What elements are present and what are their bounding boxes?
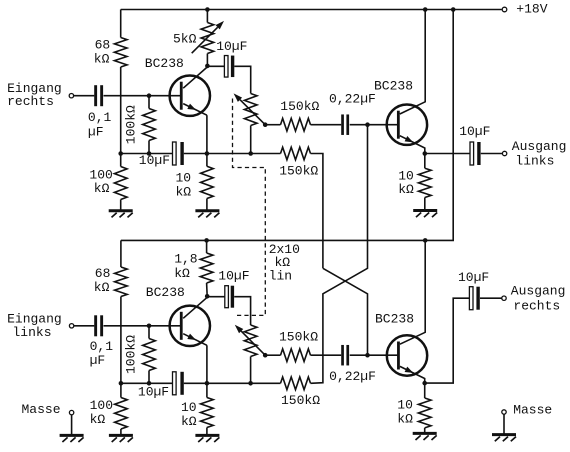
node pot bottom junction lower: [248, 381, 253, 386]
svg-text:BC238: BC238: [146, 285, 185, 300]
transistor Q2 BC238: [387, 105, 427, 145]
node base divider junction lower: [147, 324, 152, 329]
wire pot bottom to node row lower: [250, 357, 252, 384]
node 100k-rot bottom junction lower: [147, 381, 152, 386]
resistor 10k lower-left: [201, 398, 214, 428]
wire 0.22uF to base Q4: [350, 354, 398, 356]
wire collector to 10uF lower: [207, 296, 225, 298]
svg-text:10µF: 10µF: [459, 124, 490, 139]
ground Masse left: [60, 435, 84, 442]
label 1.8k: [174, 252, 197, 281]
svg-text:0,1: 0,1: [90, 339, 114, 354]
svg-text:150kΩ: 150kΩ: [280, 99, 319, 114]
svg-text:kΩ: kΩ: [94, 52, 110, 67]
svg-text:100: 100: [89, 167, 112, 182]
wire crossover left-to-right: [311, 125, 368, 384]
potentiometer upper wiper arrow: [234, 93, 266, 124]
capacitor 10uF output upper: [470, 142, 481, 165]
trimmer 5k arrow: [192, 21, 224, 53]
svg-text:10µF: 10µF: [139, 153, 170, 168]
label 5k: [173, 32, 197, 47]
wire crossover right-to-left: [323, 268, 368, 355]
svg-text:10µF: 10µF: [458, 270, 489, 285]
resistor 100k rotated lower: [143, 339, 156, 371]
svg-text:links: links: [515, 154, 554, 169]
wire emitter Q2 to 10k: [424, 154, 426, 169]
wire emitter Q3: [183, 334, 207, 384]
wire emitter Q4: [400, 366, 425, 383]
resistor 10k upper-right: [419, 168, 432, 197]
ground Masse right: [492, 435, 516, 442]
wire 1.8k to collector node: [206, 283, 209, 297]
capacitor 10uF output lower: [469, 287, 479, 310]
label 0.1uF lower: [90, 339, 114, 368]
resistor 68k lower: [115, 267, 128, 297]
svg-text:kΩ: kΩ: [181, 414, 197, 429]
output terminal Ausgang rechts: [502, 296, 506, 300]
resistor 100k lower-left: [115, 398, 128, 430]
capacitor 0.1uF upper: [94, 85, 103, 106]
node wiper lower junction: [263, 353, 268, 358]
transistor Q1 BC238: [170, 76, 210, 116]
svg-text:kΩ: kΩ: [176, 184, 192, 199]
wire wiper to 150k: [265, 124, 280, 126]
ground below 10k lower-right: [413, 433, 437, 440]
label 150k lower-first: [279, 329, 318, 344]
wire emitter Q2: [400, 136, 425, 154]
capacitor 10uF coupling upper: [224, 56, 234, 78]
label 150k upper-second: [279, 164, 318, 179]
capacitor 10uF coupling lower: [225, 286, 234, 308]
wire rail drop: [121, 10, 453, 241]
wire wiper to 150k lower: [265, 354, 280, 356]
node base Q2 junction: [365, 122, 370, 127]
wire emitter Q4 to 10k: [424, 383, 426, 398]
svg-text:150kΩ: 150kΩ: [279, 164, 318, 179]
label 68k upper: [94, 37, 110, 66]
wire 100k-rot to node row lower: [148, 371, 150, 384]
svg-text:Masse: Masse: [22, 402, 61, 417]
wire collector Q4: [400, 240, 425, 344]
label 100k lower-left: [90, 398, 113, 427]
resistor 150k upper-second: [281, 147, 311, 160]
ground below 10k lower-left: [195, 435, 219, 442]
resistor 10k upper-left: [201, 166, 214, 198]
ground below 100k upper: [109, 211, 133, 218]
wire emitter to 10k lower-left: [206, 383, 208, 397]
capacitor 0.1uF lower: [94, 315, 103, 336]
node lower-rail 1.8k junction: [204, 238, 209, 243]
svg-text:BC238: BC238: [145, 56, 184, 71]
wire 10k to ground lower-right: [424, 428, 426, 434]
label 10k upper-left: [176, 170, 192, 199]
svg-text:68: 68: [95, 266, 111, 281]
node base divider junction: [147, 93, 152, 98]
label Masse right: [513, 402, 552, 417]
potentiometer 10k lower body: [244, 325, 257, 357]
wire 100k to ground lower: [120, 429, 122, 435]
wire node row mid: [184, 153, 281, 155]
svg-text:links: links: [13, 325, 52, 340]
wire rail to 68k: [120, 10, 122, 38]
ground below 100k lower: [109, 435, 133, 442]
svg-text:kΩ: kΩ: [174, 266, 190, 281]
resistor 100k upper-left: [114, 167, 127, 200]
wire 150k2 to crossover: [311, 154, 323, 269]
label 10k lower-right: [397, 398, 413, 427]
wire 10k to ground upper-right: [424, 198, 426, 211]
wire Masse right to ground: [503, 414, 505, 434]
node emitter Q2 junction: [423, 151, 428, 156]
label Masse left: [22, 402, 61, 417]
label 150k upper-first: [280, 99, 319, 114]
label 10uF output upper: [459, 124, 490, 139]
node 68k-100k junction lower: [119, 381, 124, 386]
label 10k upper-right: [398, 169, 414, 198]
resistor 150k upper-first: [281, 118, 311, 131]
input terminal Eingang rechts: [69, 94, 73, 98]
svg-text:+18V: +18V: [516, 1, 547, 16]
label 100k upper-left: [89, 167, 112, 196]
label 150k lower-second: [281, 393, 320, 408]
node collector Q1 junction: [205, 64, 210, 69]
trimmer 5k body: [201, 23, 214, 54]
wire 150k to 0.22uF: [311, 124, 342, 126]
node rail-trimmer junction: [205, 7, 210, 12]
svg-text:kΩ: kΩ: [398, 182, 414, 197]
node collector Q3 junction: [205, 294, 210, 299]
svg-text:Ausgang: Ausgang: [511, 283, 566, 298]
wire input to cap: [74, 95, 95, 97]
label Eingang rechts: [7, 81, 62, 109]
wire collector Q3: [183, 297, 207, 318]
power terminal +18V: [502, 7, 507, 12]
svg-text:5kΩ: 5kΩ: [173, 32, 197, 47]
svg-text:0,22µF: 0,22µF: [329, 92, 376, 107]
wire 68k to node row lower: [120, 297, 122, 384]
wire cap to base Q3: [104, 325, 181, 327]
input terminal Eingang links: [69, 324, 73, 328]
output terminal Ausgang links: [502, 151, 506, 155]
svg-text:10: 10: [176, 170, 192, 185]
capacitor 0.22uF upper: [341, 114, 349, 135]
svg-text:100kΩ: 100kΩ: [124, 335, 139, 374]
wire rail to 68k lower: [120, 240, 122, 267]
wire Masse left to ground: [71, 415, 73, 436]
wire output cap to terminal lower: [480, 297, 502, 299]
svg-text:BC238: BC238: [375, 311, 414, 326]
svg-text:0,1: 0,1: [88, 110, 112, 125]
svg-text:10: 10: [397, 398, 413, 413]
svg-text:kΩ: kΩ: [90, 412, 106, 427]
wire 150k to 0.22uF lower: [311, 354, 342, 356]
label 0.1uF upper: [88, 110, 112, 140]
wire 10uF to pot top: [234, 66, 250, 93]
wire node row left lower: [121, 382, 173, 384]
node lower-rail collector junction: [423, 238, 428, 243]
node 68k-100k junction: [118, 151, 123, 156]
label Ausgang rechts: [511, 283, 566, 313]
svg-text:rechts: rechts: [7, 94, 54, 109]
label Eingang links: [7, 312, 62, 340]
node emitter Q1 junction: [205, 151, 210, 156]
node 100k-rot bottom junction: [147, 151, 152, 156]
ground terminal Masse left: [69, 410, 73, 414]
svg-text:1,8: 1,8: [174, 252, 197, 267]
capacitor 10uF bypass lower: [173, 372, 184, 395]
wire rail to 1.8k: [206, 240, 208, 253]
label 100k rotated upper: [124, 105, 139, 144]
wire collector Q2: [400, 10, 425, 115]
node base Q4 junction: [365, 353, 370, 358]
svg-text:10µF: 10µF: [218, 268, 249, 283]
resistor 150k lower-first: [281, 349, 311, 362]
label BC238 Q3: [146, 285, 185, 300]
svg-text:kΩ: kΩ: [397, 412, 413, 427]
label 10uF bypass lower: [138, 384, 169, 399]
ground below 10k upper-left: [195, 211, 219, 218]
wire 100k to ground: [120, 200, 122, 211]
wire +18V rail: [121, 9, 502, 11]
label 10uF coupling upper: [216, 39, 247, 54]
emitter arrow Q2: [405, 136, 414, 142]
svg-text:µF: µF: [88, 125, 104, 140]
capacitor 10uF bypass upper: [173, 142, 184, 165]
label 2x10k lin: [269, 242, 300, 283]
node rail-drop junction: [451, 7, 456, 12]
wire collector Q1: [183, 67, 207, 88]
node pot bottom junction: [248, 151, 253, 156]
label Ausgang links: [512, 139, 567, 169]
label +18V: [516, 1, 547, 16]
wire node to 100k lower: [120, 383, 122, 397]
wire emitter row to output cap: [425, 153, 470, 155]
svg-text:Masse: Masse: [513, 402, 552, 417]
transistor Q4 BC238: [387, 335, 427, 375]
wire emitter Q1: [183, 104, 207, 154]
resistor 1.8k: [200, 253, 213, 283]
svg-text:100: 100: [90, 398, 113, 413]
wire output cap to terminal: [481, 153, 502, 155]
emitter arrow Q4: [405, 367, 414, 373]
wire node to 100k: [120, 154, 122, 167]
wire base to 100k-rot lower: [148, 326, 150, 339]
ground below 10k upper-right: [413, 211, 437, 218]
node emitter Q3 junction: [205, 381, 210, 386]
label 68k lower: [94, 266, 111, 295]
capacitor 0.22uF lower: [341, 345, 349, 366]
svg-text:µF: µF: [90, 353, 106, 368]
emitter arrow Q3: [187, 334, 196, 340]
wire trimmer to collector node: [206, 54, 208, 67]
label BC238 Q2: [374, 78, 413, 93]
wire 10k to ground upper-left: [206, 199, 208, 211]
svg-text:10: 10: [181, 400, 197, 415]
gang dashed link: [233, 99, 266, 316]
svg-text:Ausgang: Ausgang: [512, 139, 567, 154]
svg-text:rechts: rechts: [513, 298, 560, 313]
resistor 10k lower-right: [418, 398, 431, 428]
wire pot bottom to node row: [250, 126, 252, 154]
wire rail to trimmer: [206, 10, 208, 23]
potentiometer 10k upper body: [244, 94, 257, 126]
label 100k rotated lower: [124, 335, 139, 374]
wire cap to base Q1: [104, 95, 181, 97]
wire 68k to node row: [120, 67, 122, 154]
wire node row left: [121, 153, 173, 155]
node emitter Q4 junction: [422, 381, 427, 386]
node wiper upper junction: [263, 122, 268, 127]
wire emitter row to output riser: [425, 298, 470, 383]
wire 100k-rot to node row: [148, 141, 150, 154]
label 10k lower-left: [181, 400, 197, 429]
svg-text:150kΩ: 150kΩ: [281, 393, 320, 408]
wire 10uF to pot top lower: [234, 297, 250, 325]
wire collector to 10uF: [207, 65, 224, 67]
potentiometer lower wiper arrow: [235, 325, 265, 356]
emitter arrow Q1: [187, 104, 196, 110]
svg-text:100kΩ: 100kΩ: [124, 105, 139, 144]
label 10uF output lower: [458, 270, 489, 285]
label 0.22uF lower: [329, 369, 376, 384]
label BC238 Q1: [145, 56, 184, 71]
svg-text:kΩ: kΩ: [94, 280, 110, 295]
svg-text:150kΩ: 150kΩ: [279, 329, 318, 344]
label 10uF bypass upper: [139, 153, 170, 168]
svg-text:lin: lin: [269, 268, 292, 283]
wire base to 100k-rot: [148, 96, 150, 109]
wire emitter to 10k upper-left: [206, 154, 208, 167]
svg-text:kΩ: kΩ: [94, 181, 110, 196]
resistor 68k upper: [114, 38, 127, 68]
resistor 150k lower-second: [281, 377, 311, 390]
ground terminal Masse right: [502, 410, 506, 414]
svg-text:10µF: 10µF: [138, 384, 169, 399]
svg-text:10µF: 10µF: [216, 39, 247, 54]
label 10uF coupling lower: [218, 268, 249, 283]
node rail-collector junction: [423, 7, 428, 12]
wire 0.22uF to base Q2: [350, 124, 398, 126]
wire node row mid lower: [184, 382, 281, 384]
wire input to cap lower: [74, 325, 94, 327]
transistor Q3 BC238: [170, 306, 210, 346]
label 0.22uF upper: [329, 92, 376, 107]
resistor 100k rotated upper: [143, 109, 156, 141]
svg-text:68: 68: [95, 37, 111, 52]
wire 10k to ground lower-left: [206, 428, 208, 436]
label BC238 Q4: [375, 311, 414, 326]
svg-text:BC238: BC238: [374, 78, 413, 93]
svg-text:0,22µF: 0,22µF: [329, 369, 376, 384]
